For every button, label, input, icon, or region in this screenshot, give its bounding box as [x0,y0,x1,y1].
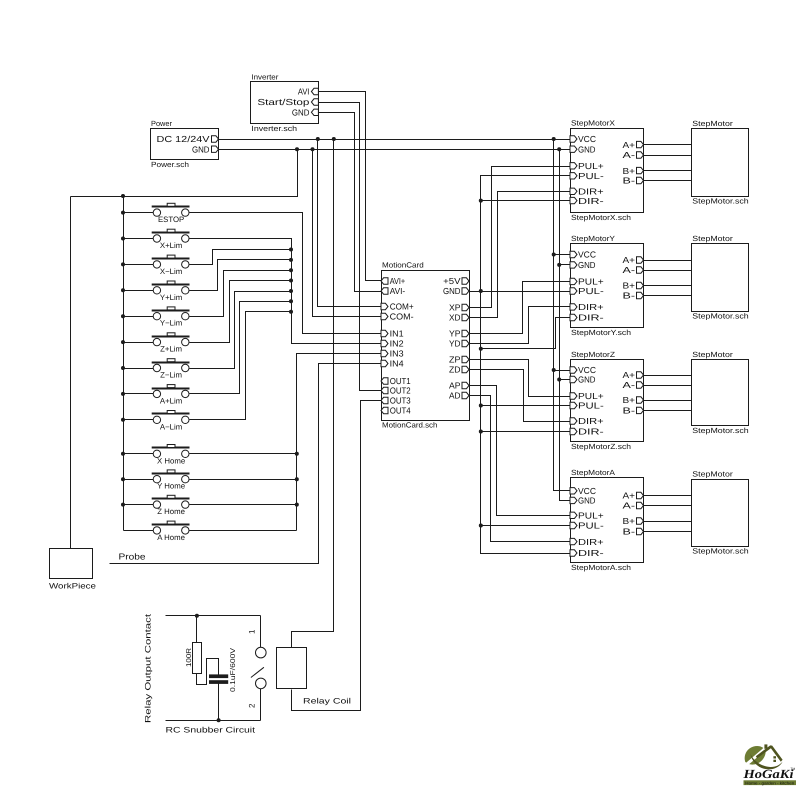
pin StepMotorX DIR- [570,197,577,203]
wire [124,453,154,455]
wire Inverter AVI to AVI+ [319,92,382,281]
wire [124,238,154,240]
wire limit switch to bus [190,271,292,317]
wire resistor bottom to cap top [197,659,219,685]
svg-text:StepMotorX.sch: StepMotorX.sch [571,213,631,222]
pin ZD [462,366,469,372]
switch Y−Lim [152,307,190,328]
svg-text:StepMotorX: StepMotorX [571,119,615,128]
wire driver phase to motor [644,410,692,412]
junction bus/A PUL- [479,524,483,528]
svg-text:ESTOP: ESTOP [158,215,184,224]
sheet WorkPiece [50,549,93,579]
pin StepMotorZ GND [570,376,577,382]
svg-text:DIR-: DIR- [578,196,604,206]
wire driver phase to motor [644,180,692,182]
pin StepMotorY VCC [570,251,577,257]
pin AVI+ [381,278,388,284]
wire Inverter Start/Stop to OUT2 [319,103,382,391]
wire GND rail to StepMotorX GND [219,149,571,151]
svg-text:StepMotorA.sch: StepMotorA.sch [571,563,631,572]
sheet StepMotorX [571,129,644,213]
pin StepMotorX A- [637,152,644,158]
wire driver phase to motor [644,531,692,533]
pin StepMotorA DIR+ [570,538,577,544]
junction GND/Z [557,378,561,382]
svg-text:Z+Lim: Z+Lim [160,345,182,354]
pin Start/Stop [311,99,318,105]
wire VCC to Z VCC [554,370,571,372]
wire GND to Y GND [560,264,571,266]
pin StepMotorZ DIR+ [570,418,577,424]
relay contact terminal 1 [255,647,266,658]
svg-text:DIR-: DIR- [578,548,604,558]
svg-text:PUL-: PUL- [578,171,604,181]
junction [121,211,125,215]
pin +5V [462,278,469,284]
pin YD [462,340,469,346]
capacitor 0.1uF/600V [209,674,228,678]
svg-text:Y Home: Y Home [157,482,185,491]
pin StepMotorA A+ [637,492,644,498]
junction [121,340,125,344]
pin StepMotorZ PUL+ [570,393,577,399]
junction limit bus [289,299,293,303]
wire [124,530,154,532]
svg-text:Y+Lim: Y+Lim [160,293,182,302]
svg-text:PUL+: PUL+ [578,511,604,521]
svg-text:Z−Lim: Z−Lim [160,371,182,380]
resistor 100R [193,643,202,674]
pin StepMotorY A- [637,267,644,273]
pin StepMotorZ B+ [637,397,644,403]
svg-text:B+: B+ [623,395,636,405]
svg-text:PUL+: PUL+ [578,161,604,171]
wire top rail to contact 1 [260,616,262,648]
pin GND [212,146,219,152]
wire [124,479,154,481]
pin OUT4 [381,407,388,413]
wire GND down to switch common rail [71,150,298,197]
wire ESTOP to IN1 [190,213,382,334]
pin StepMotorY A+ [637,257,644,263]
svg-text:StepMotorZ: StepMotorZ [571,350,615,359]
junction DC rail / COM+ drop [316,137,320,141]
wire X DIR- to bus [481,200,571,202]
svg-text:Start/Stop: Start/Stop [257,97,309,107]
svg-text:StepMotorA: StepMotorA [571,468,615,477]
svg-text:A+: A+ [623,491,636,501]
junction bus/Z DIR- [479,430,483,434]
junction cap bottom [217,718,221,722]
wire driver phase to motor [644,375,692,377]
junction [121,392,125,396]
sheet StepMotorY [571,244,644,328]
svg-text:GND: GND [192,144,210,154]
pin StepMotorY GND [570,262,577,268]
svg-text:100R: 100R [186,648,193,667]
svg-text:RC Snubber Circuit: RC Snubber Circuit [166,726,256,735]
pin COM+ [381,303,388,309]
wire limit switch to bus [190,281,292,343]
pin StepMotorY B- [637,292,644,298]
junction [121,452,125,456]
wire home switch to bus [190,530,297,532]
pin AVI [311,88,318,94]
relay coil K1 [277,648,307,689]
junction bus/X DIR- [479,199,483,203]
pin StepMotorZ A+ [637,372,644,378]
svg-text:XP: XP [449,303,461,313]
svg-text:GND: GND [578,260,596,270]
svg-text:B-: B- [623,176,636,186]
svg-text:A-: A- [623,265,636,275]
junction bus/GND [479,289,483,293]
junction home bus [295,452,299,456]
svg-text:PUL-: PUL- [578,286,604,296]
svg-text:OUT4: OUT4 [390,406,411,416]
svg-text:GND: GND [292,108,310,118]
pin StepMotorX GND [570,146,577,152]
junction bus branch [479,347,483,351]
junction limit bus [289,279,293,283]
junction limit bus [289,248,293,252]
wire driver phase to motor [644,155,692,157]
wire [124,290,154,292]
wire driver phase to motor [644,144,692,146]
svg-text:0.1uF/600V: 0.1uF/600V [229,648,237,692]
relay contact terminal 2 [255,678,266,689]
switch Z−Lim [152,359,190,380]
switch ESTOP [152,203,190,224]
wire snubber top rail [166,615,261,617]
svg-text:TM: TM [791,767,796,771]
pin StepMotorX PUL+ [570,163,577,169]
contact actuator slash [251,667,264,677]
pin AP [462,382,469,388]
svg-text:A+: A+ [623,255,636,265]
pin AVI- [381,288,388,294]
wire home switch to bus [190,453,297,455]
svg-text:DIR+: DIR+ [578,537,604,547]
switch X Home [152,445,190,466]
pin StepMotorA GND [570,497,577,503]
junction [121,418,125,422]
svg-text:StepMotor: StepMotor [692,350,733,359]
pin StepMotorY PUL+ [570,278,577,284]
junction limit bus [289,289,293,293]
svg-text:A-: A- [623,150,636,160]
junction GND rail / GND bus [557,147,561,151]
svg-text:StepMotor.sch: StepMotor.sch [692,197,748,206]
svg-text:Relay Output Contact: Relay Output Contact [144,613,153,723]
svg-text:2: 2 [248,703,257,708]
switch Z Home [152,495,190,516]
wire snubber bottom rail [166,720,261,722]
pin AD [462,392,469,398]
wire cap bottom to rail [218,684,220,721]
svg-text:HoGaKi: HoGaKi [742,767,794,781]
wire driver phase to motor [644,285,692,287]
wire XD to X DIR+ [470,192,571,318]
svg-text:AD: AD [449,391,461,401]
svg-text:PUL+: PUL+ [578,277,604,287]
junction VCC/Z [552,368,556,372]
pin XD [462,314,469,320]
svg-text:OUT2: OUT2 [390,386,411,396]
wire switch common bus [123,197,125,531]
junction [121,503,125,507]
junction VCC/Y [552,253,556,257]
svg-text:PUL-: PUL- [578,401,604,411]
switch X+Lim [152,229,190,250]
svg-text:MotionCard.sch: MotionCard.sch [382,421,437,430]
wire driver phase to motor [644,170,692,172]
wire driver phase to motor [644,270,692,272]
svg-text:StepMotor.sch: StepMotor.sch [692,312,748,321]
svg-text:A-: A- [623,380,636,390]
wire YP to Y PUL+ [470,282,571,334]
pin StepMotorX DIR+ [570,188,577,194]
svg-text:OUT3: OUT3 [390,396,411,406]
pin StepMotorY PUL- [570,288,577,294]
svg-text:X−Lim: X−Lim [160,267,182,276]
pin IN4 [381,360,388,366]
wire driver phase to motor [644,295,692,297]
pin StepMotorA B+ [637,518,644,524]
pin OUT3 [381,397,388,403]
svg-text:GND: GND [578,496,596,506]
sheet StepMotor for StepMotorX [692,129,749,197]
svg-text:VCC: VCC [578,486,596,496]
wire YD to Y DIR+ [470,307,571,344]
wire limit switch to bus [190,250,292,265]
junction DC rail / VCC bus [552,137,556,141]
junction home bus [295,477,299,481]
svg-text:IN2: IN2 [390,339,404,349]
svg-text:A−Lim: A−Lim [160,422,182,431]
svg-text:StepMotor.sch: StepMotor.sch [692,547,748,556]
svg-text:X+Lim: X+Lim [160,241,182,250]
wire bus to Y DIR- [481,318,571,349]
svg-text:PUL-: PUL- [578,521,604,531]
svg-text:AVI-: AVI- [390,286,406,296]
svg-text:B+: B+ [623,166,636,176]
junction GND/Y [557,263,561,267]
wire [124,419,154,421]
svg-text:A+: A+ [623,140,636,150]
svg-text:X Home: X Home [157,456,185,465]
junction [121,237,125,241]
svg-text:Y−Lim: Y−Lim [160,319,182,328]
pin StepMotorA PUL+ [570,512,577,518]
wire bus to Z DIR- [481,431,571,433]
svg-text:GND: GND [578,144,596,154]
wire DC to relay coil + [292,140,334,648]
wire home switch to bus [190,479,297,481]
junction [121,366,125,370]
wire [124,393,154,395]
svg-text:B-: B- [623,406,636,416]
sheet StepMotor for StepMotorY [692,244,749,312]
svg-text:1: 1 [248,629,257,634]
svg-text:Power.sch: Power.sch [151,160,189,169]
pin StepMotorZ A- [637,382,644,388]
pin GND [462,288,469,294]
svg-text:+5V: +5V [443,276,461,286]
svg-text:B-: B- [623,291,636,301]
wire VCC bus [554,140,571,491]
wire GND to Z GND [560,379,571,381]
wire limit switch to bus [190,312,292,420]
pin IN2 [381,340,388,346]
svg-text:A Home: A Home [157,533,185,542]
pin StepMotorY B+ [637,282,644,288]
switch Z+Lim [152,333,190,354]
pin StepMotorY DIR+ [570,304,577,310]
svg-text:B-: B- [623,527,636,537]
svg-text:StepMotor.sch: StepMotor.sch [692,426,748,435]
junction bus/Z PUL- [479,404,483,408]
wire limit switch to bus [190,260,292,291]
pin StepMotorY DIR- [570,314,577,320]
svg-text:Relay Coil: Relay Coil [303,697,351,706]
pin StepMotorA DIR- [570,550,577,556]
switch Y+Lim [152,281,190,302]
svg-text:IN1: IN1 [390,329,404,339]
svg-text:XD: XD [449,313,461,323]
wire home bus to IN3 [297,354,382,531]
svg-text:A-: A- [623,501,636,511]
svg-text:Inverter.sch: Inverter.sch [251,124,297,133]
svg-text:AVI+: AVI+ [390,276,406,286]
svg-text:COM-: COM- [390,312,414,322]
wire driver phase to motor [644,505,692,507]
svg-text:VCC: VCC [578,365,596,375]
pin StepMotorZ VCC [570,367,577,373]
switch X−Lim [152,255,190,276]
wire Inverter GND to AVI- [319,113,382,292]
junction resistor top [195,614,199,618]
sheet Inverter [251,82,319,124]
wire down to WorkPiece [70,197,72,549]
junction DC rail / relay drop [332,137,336,141]
wire AD to A DIR+ [470,396,571,542]
svg-text:DIR+: DIR+ [578,302,604,312]
wire to resistor top [196,616,198,643]
sheet StepMotor for StepMotorA [692,480,749,547]
wire driver phase to motor [644,400,692,402]
svg-text:IN4: IN4 [390,359,404,369]
svg-text:A+: A+ [623,370,636,380]
junction GND rail / switch-common drop [295,147,299,151]
svg-text:COM+: COM+ [390,302,414,312]
wire ZP to Z PUL+ [470,360,571,397]
junction home bus [295,503,299,507]
svg-text:Inverter: Inverter [251,72,279,81]
wire bus to Z PUL- [481,405,571,407]
svg-text:IN3: IN3 [390,349,404,359]
switch Y Home [152,470,190,491]
svg-text:DC 12/24V: DC 12/24V [157,134,210,144]
pin IN1 [381,330,388,336]
svg-text:DIR+: DIR+ [578,416,604,426]
wire limit switch to bus [190,292,292,369]
HoGaKi logo [742,744,796,785]
svg-text:DIR-: DIR- [578,427,604,437]
svg-text:YP: YP [449,329,461,339]
wire ZD to Z DIR+ [470,370,571,422]
svg-text:AP: AP [449,381,461,391]
junction [121,288,125,292]
svg-text:PUL+: PUL+ [578,391,604,401]
pin StepMotorX B+ [637,167,644,173]
junction [121,262,125,266]
wire driver phase to motor [644,385,692,387]
pin GND [311,109,318,115]
svg-text:A+Lim: A+Lim [160,396,182,405]
svg-text:VCC: VCC [578,134,596,144]
switch A Home [152,521,190,542]
wire Probe to IN4 [110,364,382,564]
switch A−Lim [152,411,190,432]
pin OUT2 [381,387,388,393]
wire home switch to bus [190,504,297,506]
svg-text:StepMotorY.sch: StepMotorY.sch [571,328,631,337]
wire contact 2 to bottom rail [260,689,262,721]
svg-text:StepMotor: StepMotor [692,470,733,479]
svg-text:WorkPiece: WorkPiece [49,582,96,591]
wire GND bus [560,150,571,501]
pin StepMotorA A- [637,502,644,508]
junction limit bus [289,268,293,272]
wire [124,264,154,266]
wire [124,342,154,344]
junction GND rail / COM- drop [311,147,315,151]
wire VCC to Y VCC [554,254,571,256]
sheet StepMotorZ [571,360,644,442]
svg-text:GND: GND [578,375,596,385]
svg-text:GND: GND [443,286,461,296]
svg-text:B+: B+ [623,516,636,526]
svg-text:ZP: ZP [449,355,461,365]
pin StepMotorA VCC [570,488,577,494]
svg-text:StepMotorY: StepMotorY [571,234,615,243]
svg-text:Probe: Probe [119,552,146,562]
pin StepMotorX PUL- [570,173,577,179]
svg-text:StepMotor: StepMotor [692,119,733,128]
svg-text:B+: B+ [623,281,636,291]
svg-text:StepMotorZ.sch: StepMotorZ.sch [571,442,631,451]
wire common bus X PUL- to A DIR- [481,176,571,554]
svg-text:ZD: ZD [449,365,461,375]
svg-text:Z Home: Z Home [157,507,185,516]
wire driver phase to motor [644,495,692,497]
wire limit switch to bus [190,302,292,394]
svg-text:DIR-: DIR- [578,313,604,323]
pin XP [462,304,469,310]
svg-text:YD: YD [449,339,461,349]
pin StepMotorX VCC [570,136,577,142]
svg-text:Power: Power [151,119,172,128]
pin OUT1 [381,378,388,384]
sheet StepMotorA [571,478,644,563]
wire bus to A PUL- [481,525,571,527]
pin IN3 [381,350,388,356]
junction limit bus [289,310,293,314]
wire DC12/24V rail to StepMotorX VCC [219,139,571,141]
pin COM- [381,313,388,319]
